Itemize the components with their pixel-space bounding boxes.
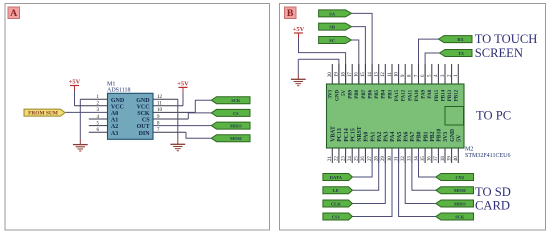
svg-text:VBAT: VBAT: [331, 126, 337, 142]
svg-text:STM32F411CEU6: STM32F411CEU6: [465, 153, 510, 159]
pin 10 SCK stub: [153, 111, 195, 113]
pin 8 OUT wire to MISO: [153, 125, 211, 127]
wire SC to pin PB8: [352, 40, 359, 84]
microcontroller module M2 body: [327, 84, 465, 148]
svg-text:DIN: DIN: [139, 131, 151, 137]
panel B frame: [280, 4, 546, 231]
svg-text:LE: LE: [333, 188, 339, 193]
port label SA: [319, 10, 352, 17]
svg-text:SB: SB: [329, 25, 335, 30]
svg-text:MISO: MISO: [230, 124, 242, 129]
power +5V (panel A right): [177, 81, 189, 93]
svg-text:12: 12: [381, 72, 386, 77]
svg-text:RX: RX: [457, 37, 464, 42]
wire SCK net B: [399, 148, 436, 217]
svg-text:15: 15: [361, 72, 366, 77]
wire +5V to pin 2 VCC: [74, 91, 76, 106]
port label CN2: [436, 174, 474, 181]
svg-text:14: 14: [368, 72, 373, 77]
svg-text:CS: CS: [233, 111, 239, 116]
svg-text:+5V: +5V: [177, 81, 189, 88]
annotation TO TOUCH SCREEN: [475, 32, 538, 60]
svg-text:PB4: PB4: [382, 89, 387, 98]
power +5V (panel A left): [69, 79, 81, 91]
svg-text:13: 13: [375, 72, 380, 77]
port label LE: [323, 187, 353, 194]
wire LE net: [352, 148, 378, 190]
svg-text:PB3: PB3: [388, 89, 393, 98]
wire SCK net: [195, 100, 211, 112]
svg-text:FROM SUM: FROM SUM: [28, 111, 58, 117]
svg-text:PA0: PA0: [364, 132, 370, 142]
svg-text:SCK: SCK: [455, 214, 465, 219]
svg-text:16: 16: [355, 72, 360, 77]
svg-text:PC15: PC15: [350, 128, 356, 142]
wire MOSI net: [186, 132, 211, 138]
svg-text:5V: 5V: [457, 134, 463, 142]
wire SB to pin PB7: [352, 27, 366, 84]
svg-text:17: 17: [348, 72, 353, 77]
top pin numbers 20..1: [328, 72, 459, 77]
svg-text:PB6: PB6: [369, 89, 374, 98]
svg-text:TO PC: TO PC: [476, 109, 511, 123]
op-amp/ADC chip U M1 body: [108, 93, 154, 139]
wire pin 1 GND down to ground: [79, 99, 81, 138]
pin 6 A3 stub: [89, 131, 108, 133]
port label RX: [439, 36, 473, 43]
svg-text:25: 25: [355, 156, 360, 161]
ground (panel B): [291, 79, 306, 85]
wire +5V to pin 5V: [299, 38, 346, 84]
svg-text:21: 21: [328, 156, 333, 161]
svg-text:PB10: PB10: [437, 128, 443, 141]
power +5V (panel B): [293, 26, 305, 38]
ground stub right (red): [177, 138, 179, 144]
inner connector box on M2: [445, 107, 464, 126]
svg-text:NRST: NRST: [357, 126, 363, 142]
svg-text:MOSI: MOSI: [230, 136, 242, 141]
svg-text:TO TOUCH: TO TOUCH: [475, 32, 538, 46]
svg-text:18: 18: [341, 72, 346, 77]
svg-text:CLK: CLK: [331, 201, 341, 206]
wire CN2 net: [419, 148, 436, 177]
svg-text:PC13: PC13: [337, 128, 343, 142]
svg-text:23: 23: [341, 156, 346, 161]
port label SCK B: [436, 213, 474, 220]
port label SCK: [211, 97, 250, 104]
wire MISO net B: [405, 148, 436, 204]
svg-text:PA2: PA2: [377, 132, 383, 142]
svg-text:SC: SC: [329, 38, 335, 43]
wire TX to pin PA9: [425, 53, 439, 84]
svg-text:3V3: 3V3: [329, 89, 334, 98]
svg-text:DATA: DATA: [330, 175, 343, 180]
wire pin 12 GND down: [177, 99, 179, 138]
svg-text:PA4: PA4: [390, 132, 396, 142]
svg-text:PB7: PB7: [362, 89, 367, 98]
wire SA to pin PB6: [352, 13, 373, 84]
pin 7 DIN stub: [153, 131, 186, 133]
svg-text:SCK: SCK: [231, 98, 241, 103]
bottom pin stubs of M2: [332, 148, 458, 163]
wire MOSI net B: [412, 148, 436, 190]
svg-text:VCC: VCC: [111, 104, 124, 110]
svg-text:CN2: CN2: [456, 175, 465, 180]
svg-text:GND: GND: [111, 98, 125, 104]
svg-text:PB1: PB1: [423, 131, 429, 141]
ground (panel A left): [73, 145, 88, 151]
svg-text:37: 37: [434, 156, 439, 161]
svg-text:10: 10: [157, 108, 163, 113]
svg-text:PA15: PA15: [395, 89, 400, 101]
svg-text:CS: CS: [142, 118, 150, 124]
svg-text:PA7: PA7: [410, 132, 416, 142]
svg-text:20: 20: [328, 72, 333, 77]
svg-text:CS1: CS1: [332, 214, 341, 219]
svg-text:M2: M2: [465, 147, 473, 153]
svg-text:10: 10: [394, 72, 399, 77]
svg-text:PB15: PB15: [435, 89, 440, 101]
svg-text:40: 40: [454, 156, 459, 161]
port label MISO B: [436, 200, 474, 207]
input label FROM SUM: [24, 109, 65, 117]
pin numbers 12-7: [157, 95, 163, 133]
panel label B: [285, 7, 297, 19]
svg-text:GND: GND: [335, 90, 340, 102]
ground stub (red): [79, 139, 81, 145]
svg-text:26: 26: [361, 156, 366, 161]
wire FROM SUM to pin 3 A0: [66, 111, 108, 113]
wire RX to pin PA10: [419, 39, 439, 84]
svg-text:PA6: PA6: [403, 132, 409, 142]
svg-text:PB5: PB5: [375, 89, 380, 98]
svg-text:PA10: PA10: [415, 89, 420, 101]
ground stub B (red): [297, 74, 299, 79]
svg-text:22: 22: [335, 156, 340, 161]
wire DATA net: [352, 148, 372, 177]
svg-text:PB0: PB0: [417, 131, 423, 141]
svg-text:11: 11: [157, 102, 162, 107]
svg-text:38: 38: [441, 156, 446, 161]
svg-text:PC14: PC14: [344, 128, 350, 142]
svg-text:PB14: PB14: [441, 89, 446, 101]
ground (panel A right): [170, 144, 185, 150]
port label CLK: [323, 200, 353, 207]
svg-text:PA8: PA8: [428, 89, 433, 98]
port label MISO: [211, 122, 250, 129]
svg-text:A: A: [10, 8, 17, 19]
pin numbers 1-6: [97, 95, 100, 133]
port label CS: [211, 109, 250, 116]
svg-text:A0: A0: [111, 111, 118, 117]
port label MOSI: [211, 135, 250, 142]
svg-text:TX: TX: [458, 51, 465, 56]
svg-text:PB13: PB13: [448, 89, 453, 101]
svg-text:GND: GND: [136, 98, 150, 104]
chip M1 reference designator: [107, 82, 131, 94]
port label TX: [440, 50, 473, 57]
svg-text:MISO: MISO: [454, 201, 466, 206]
svg-text:39: 39: [447, 156, 452, 161]
svg-text:19: 19: [335, 72, 340, 77]
wire down to ground: [297, 59, 299, 74]
pin 9 CS stub: [153, 118, 188, 120]
svg-text:PA3: PA3: [384, 132, 390, 142]
wire CLK net: [352, 148, 385, 204]
wire +5V to pin 11 VCC: [182, 92, 184, 105]
pin 4 A1 stub: [89, 118, 108, 120]
wire ground net to pin GND: [298, 59, 339, 84]
port label CS1: [323, 213, 353, 220]
svg-text:SCK: SCK: [137, 111, 150, 117]
port label DATA: [323, 174, 353, 181]
svg-text:PB9: PB9: [349, 89, 354, 98]
svg-text:OUT: OUT: [137, 124, 150, 130]
svg-text:B: B: [287, 8, 294, 19]
svg-text:36: 36: [428, 156, 433, 161]
svg-text:SCREEN: SCREEN: [475, 46, 523, 60]
svg-text:CARD: CARD: [475, 199, 510, 213]
svg-text:12: 12: [157, 95, 163, 100]
svg-text:PB8: PB8: [355, 89, 360, 98]
annotation TO SD CARD: [475, 185, 511, 213]
wire CS1 net: [352, 148, 392, 217]
svg-text:SA: SA: [329, 11, 336, 16]
bottom pin numbers 21..40: [328, 156, 459, 161]
svg-text:VCC: VCC: [137, 104, 150, 110]
pin 2 VCC stub: [75, 105, 108, 107]
svg-text:PB12: PB12: [455, 89, 460, 101]
port label SB: [319, 23, 352, 30]
svg-text:PA12: PA12: [402, 89, 407, 101]
pin 1 GND stub: [80, 98, 107, 100]
svg-text:3V3: 3V3: [443, 132, 449, 142]
svg-text:+5V: +5V: [69, 79, 81, 86]
svg-text:+5V: +5V: [293, 26, 305, 33]
port label SC: [319, 37, 352, 44]
svg-text:GND: GND: [450, 129, 456, 142]
svg-text:35: 35: [421, 156, 426, 161]
port label MOSI B: [436, 187, 474, 194]
svg-text:24: 24: [348, 156, 353, 161]
svg-text:5V: 5V: [342, 90, 347, 97]
svg-text:MOSI: MOSI: [454, 188, 466, 193]
wire CS net: [188, 113, 211, 119]
pin 12 GND stub: [153, 98, 178, 100]
panel label A: [8, 7, 20, 19]
svg-text:A3: A3: [111, 131, 118, 137]
svg-text:ADS1118: ADS1118: [107, 87, 131, 93]
svg-text:PA11: PA11: [408, 89, 413, 101]
svg-text:A2: A2: [111, 124, 118, 130]
svg-text:PA5: PA5: [397, 132, 403, 142]
panel A frame: [5, 4, 270, 231]
pin 5 A2 stub: [89, 125, 108, 127]
svg-text:11: 11: [388, 72, 393, 77]
svg-text:TO SD: TO SD: [475, 185, 511, 199]
svg-text:A1: A1: [111, 118, 118, 124]
svg-text:PB2: PB2: [430, 131, 436, 141]
pin 11 VCC stub: [153, 105, 183, 107]
svg-text:PA1: PA1: [370, 132, 376, 142]
svg-text:PA9: PA9: [422, 89, 427, 98]
top pin stubs of M2: [332, 64, 458, 84]
chip M2 reference designator: [465, 147, 510, 160]
